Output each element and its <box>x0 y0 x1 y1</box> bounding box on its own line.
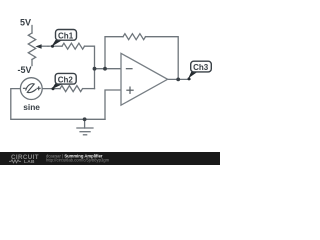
wire sine right lead <box>42 88 60 90</box>
node 5V lead wire <box>31 26 33 34</box>
junction dot output node <box>176 78 180 82</box>
op-amp minus sign <box>126 68 133 70</box>
svg-text:Ch1: Ch1 <box>58 31 74 40</box>
wire non-inverting input <box>105 90 121 119</box>
flag Ch1 box <box>56 30 77 41</box>
svg-text:-5V: -5V <box>17 65 31 75</box>
potentiometer R4 body <box>28 33 35 60</box>
svg-text:http://circuitlab.com/c/5jvb8y: http://circuitlab.com/c/5jvb8yp3gm <box>46 157 110 162</box>
op-amp U1 triangle <box>121 53 168 105</box>
svg-text:Ch3: Ch3 <box>193 63 209 72</box>
svg-text:5V: 5V <box>20 17 31 27</box>
footer bar <box>0 152 220 165</box>
sine source plus mark <box>37 86 41 90</box>
node -5V lead wire <box>31 60 33 66</box>
ground stub <box>84 119 86 128</box>
sine source minus mark <box>23 87 26 89</box>
flag Ch3 box <box>191 61 212 72</box>
svg-text:LAB: LAB <box>24 159 35 165</box>
svg-text:sine: sine <box>23 102 40 112</box>
resistor R1 <box>62 43 85 49</box>
resistor R3 feedback <box>123 34 146 40</box>
flag Ch1 tail <box>51 40 62 47</box>
junction dot summing node <box>93 67 97 71</box>
wire R1 left <box>48 45 62 47</box>
sine source V1 circle <box>20 78 42 100</box>
wire feedback left vertical <box>105 37 123 69</box>
wire feedback right <box>146 37 179 80</box>
wire op-amp output <box>168 78 190 80</box>
junction dot ground rail <box>83 117 87 121</box>
flag Ch2 tail <box>52 83 62 89</box>
resistor R2 <box>60 86 83 92</box>
op-amp plus sign <box>126 87 133 94</box>
svg-text:Ch2: Ch2 <box>58 75 74 84</box>
flag Ch2 box <box>55 73 76 84</box>
junction dot feedback tap <box>103 67 107 71</box>
wire R1 right to summing column <box>85 46 95 88</box>
wire sine left lead <box>11 89 105 120</box>
wire inverting input <box>95 68 122 70</box>
ground symbol bars <box>76 128 93 135</box>
footer logo resistor zigzag <box>9 160 21 163</box>
flag Ch3 tail <box>188 72 198 80</box>
potentiometer wiper arrow head <box>35 44 41 48</box>
sine source waveform glyph <box>26 84 36 93</box>
wire R2 right to summing column <box>84 88 95 90</box>
potentiometer wiper wire <box>39 45 49 47</box>
